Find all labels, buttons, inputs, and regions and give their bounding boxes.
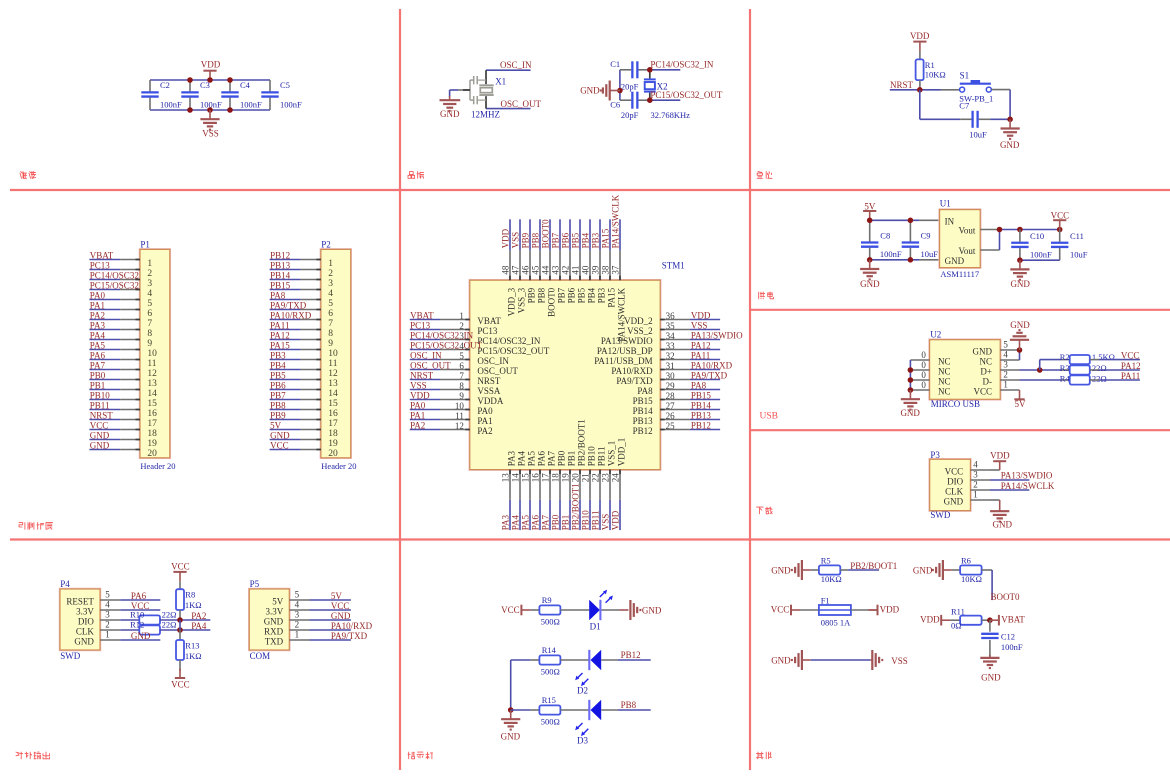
svg-text:PA2: PA2 — [90, 311, 105, 321]
junction — [917, 87, 923, 93]
svg-text:39: 39 — [591, 265, 601, 275]
ground GND — [620, 600, 662, 620]
svg-text:CLK: CLK — [945, 486, 964, 496]
svg-text:R10: R10 — [130, 610, 144, 620]
node VCC — [120, 601, 160, 611]
pin 8 of P1 — [120, 329, 152, 339]
wire — [870, 219, 920, 221]
svg-text:43: 43 — [551, 265, 561, 275]
svg-text:PA4: PA4 — [511, 515, 521, 531]
pin 5 of P2 — [300, 299, 333, 309]
svg-text:NRST: NRST — [90, 411, 114, 421]
node OSC_IN — [486, 60, 532, 70]
svg-text:NC: NC — [979, 356, 992, 366]
pin 10 of P2 — [300, 349, 338, 359]
pin 20 of P1 — [120, 449, 157, 459]
svg-text:PA7: PA7 — [90, 361, 106, 371]
node PB11 bottom — [591, 500, 601, 530]
svg-text:PB11: PB11 — [90, 401, 110, 411]
power VCC — [771, 605, 800, 616]
node VCC — [270, 441, 301, 451]
svg-text:42: 42 — [561, 266, 571, 275]
node PB2/BOOT1 bottom — [571, 483, 581, 530]
pin 9 of STM1 — [440, 391, 504, 406]
node PA11 — [270, 321, 301, 331]
svg-text:C5: C5 — [280, 80, 290, 90]
pin — [982, 569, 993, 571]
svg-text:45: 45 — [531, 265, 541, 275]
wire — [1020, 259, 1060, 261]
svg-text:PA9/TXD: PA9/TXD — [691, 371, 728, 381]
node PB8 top — [531, 219, 541, 250]
node VCC — [1099, 351, 1140, 361]
svg-text:PA11: PA11 — [270, 321, 289, 331]
svg-text:NRST: NRST — [890, 80, 914, 90]
svg-text:VCC: VCC — [1121, 351, 1140, 361]
svg-text:PC15/OSC32: PC15/OSC32 — [90, 281, 139, 291]
svg-text:GND: GND — [580, 86, 600, 96]
svg-text:GND: GND — [1010, 279, 1030, 289]
wire — [811, 659, 871, 661]
section label 对外输出 — [16, 752, 50, 759]
resistor R10 — [120, 610, 176, 625]
pin 13 of STM1 — [501, 451, 517, 500]
svg-text:PA13/SWDIO: PA13/SWDIO — [601, 336, 653, 346]
capacitor C2 — [141, 80, 182, 110]
capacitor C12 — [981, 631, 1023, 657]
pin 11 of P2 — [300, 359, 337, 369]
pin 40 of STM1 — [581, 250, 597, 303]
svg-text:PA5: PA5 — [90, 341, 106, 351]
svg-text:NRST: NRST — [410, 371, 434, 381]
pin 2 of P3 — [970, 480, 990, 491]
svg-text:4: 4 — [295, 600, 300, 610]
node VBAT — [89, 251, 120, 261]
svg-text:9: 9 — [459, 391, 464, 401]
svg-text:Vout: Vout — [959, 226, 976, 236]
pin — [990, 499, 1000, 501]
pin 12 of STM1 — [440, 421, 493, 436]
resistor R15 — [539, 695, 560, 727]
svg-text:8: 8 — [147, 329, 152, 339]
svg-text:GND: GND — [900, 408, 920, 418]
svg-text:GND: GND — [913, 565, 933, 575]
pin — [601, 709, 618, 711]
svg-text:5: 5 — [328, 299, 333, 309]
node PA0 — [89, 291, 120, 301]
pin 19 of P1 — [120, 439, 157, 449]
svg-text:MIRCO USB: MIRCO USB — [931, 399, 980, 409]
svg-text:8: 8 — [328, 329, 333, 339]
pin 16 of P1 — [120, 409, 157, 419]
node BOOT0 top — [541, 219, 551, 250]
svg-text:D2: D2 — [577, 686, 588, 696]
svg-text:27: 27 — [666, 401, 676, 411]
section divider usb/download — [750, 429, 1170, 431]
node PA2 — [410, 421, 440, 431]
svg-text:PB13: PB13 — [633, 416, 654, 426]
svg-text:PA15: PA15 — [270, 341, 290, 351]
pin 6 of STM1 — [440, 361, 518, 376]
svg-text:100nF: 100nF — [1030, 250, 1052, 260]
svg-text:R3: R3 — [1060, 363, 1070, 373]
svg-text:R5: R5 — [821, 556, 831, 566]
resistor R13 — [176, 640, 202, 661]
svg-text:BOOT0: BOOT0 — [547, 287, 557, 316]
svg-text:PB6: PB6 — [561, 232, 571, 248]
node PA7 — [89, 361, 120, 371]
svg-text:PA9/TXD: PA9/TXD — [270, 301, 307, 311]
svg-text:PB1: PB1 — [561, 515, 571, 531]
junction — [867, 218, 913, 263]
svg-text:1KΩ: 1KΩ — [185, 600, 202, 610]
capacitor C1 — [610, 59, 650, 92]
pin 19 of P2 — [300, 439, 338, 449]
svg-text:PB2/BOOT1: PB2/BOOT1 — [850, 561, 897, 571]
wire — [511, 709, 531, 711]
node PB13 — [690, 411, 720, 421]
node VCC — [310, 601, 351, 611]
node PA0 — [410, 401, 440, 411]
svg-text:PB15: PB15 — [633, 396, 654, 406]
pin 37 of STM1 — [611, 250, 627, 341]
node GND — [89, 441, 120, 451]
svg-text:22Ω: 22Ω — [1092, 374, 1107, 384]
svg-text:R15: R15 — [542, 695, 556, 705]
node PB7 top — [551, 219, 561, 250]
svg-text:C9: C9 — [921, 230, 931, 240]
node NRST — [89, 411, 120, 421]
svg-text:VCC: VCC — [771, 605, 790, 615]
svg-text:NC: NC — [938, 387, 951, 397]
svg-text:D1: D1 — [590, 621, 601, 631]
svg-text:C4: C4 — [240, 80, 251, 90]
svg-text:VCC: VCC — [331, 601, 350, 611]
svg-text:VSS: VSS — [891, 656, 908, 666]
svg-text:4: 4 — [973, 460, 978, 470]
svg-text:D3: D3 — [577, 736, 588, 746]
node PC14/OSC32 — [89, 271, 138, 281]
svg-text:PC13: PC13 — [410, 321, 431, 331]
resistor R2 — [1060, 352, 1115, 364]
svg-text:R9: R9 — [542, 595, 552, 605]
pin 3 of STM1 — [440, 331, 541, 346]
svg-text:PB6: PB6 — [270, 381, 286, 391]
pin 29 of STM1 — [637, 381, 689, 396]
svg-text:VDD: VDD — [201, 60, 221, 70]
pin 14 of STM1 — [511, 451, 527, 500]
pin 0 of U2 — [910, 360, 929, 370]
node 5V — [310, 591, 351, 601]
svg-text:PB10: PB10 — [581, 510, 591, 531]
svg-text:OSC_IN: OSC_IN — [500, 60, 532, 70]
junction — [187, 107, 233, 113]
svg-text:VBAT: VBAT — [477, 316, 501, 326]
pin 4 of P5 — [289, 600, 309, 610]
node PA12 — [690, 341, 720, 351]
node PB12 — [270, 251, 301, 261]
pin 32 of STM1 — [594, 351, 690, 366]
svg-text:PB9: PB9 — [521, 232, 531, 248]
svg-text:22Ω: 22Ω — [162, 620, 177, 630]
pin 2 of STM1 — [440, 321, 498, 336]
svg-text:5V: 5V — [270, 421, 282, 431]
node OSC_OUT — [486, 99, 542, 109]
svg-text:IN: IN — [945, 216, 955, 226]
svg-text:R2: R2 — [1060, 352, 1070, 362]
svg-text:GND: GND — [860, 279, 880, 289]
svg-text:1: 1 — [147, 259, 152, 269]
svg-text:12: 12 — [328, 369, 338, 379]
svg-text:44: 44 — [541, 265, 551, 275]
svg-text:PA10/RXD: PA10/RXD — [691, 361, 733, 371]
node PB1 — [89, 381, 120, 391]
svg-text:PA15: PA15 — [607, 287, 617, 307]
resistor R6 — [960, 556, 982, 585]
node PB3 top — [591, 219, 601, 250]
node GND — [120, 631, 160, 641]
pin 25 of STM1 — [633, 421, 690, 436]
pin — [560, 659, 589, 661]
pin — [982, 619, 990, 621]
svg-text:11: 11 — [455, 411, 464, 421]
svg-text:10uF: 10uF — [969, 129, 987, 139]
svg-text:16: 16 — [147, 409, 157, 419]
svg-text:R14: R14 — [542, 645, 557, 655]
svg-text:GND: GND — [945, 256, 965, 266]
resistor R12 — [120, 620, 176, 635]
svg-text:19: 19 — [328, 439, 338, 449]
node VCC — [89, 421, 120, 431]
svg-text:OSC_OUT: OSC_OUT — [501, 99, 542, 109]
svg-text:PB2/BOOT1: PB2/BOOT1 — [571, 483, 581, 530]
resistor R1 — [916, 59, 946, 80]
svg-text:PA8: PA8 — [691, 381, 707, 391]
svg-text:PA2: PA2 — [477, 426, 492, 436]
svg-text:VSSA: VSSA — [477, 386, 501, 396]
svg-text:4: 4 — [328, 289, 333, 299]
wire — [1019, 350, 1021, 360]
svg-text:GND: GND — [1010, 320, 1030, 330]
led D2 — [575, 650, 601, 696]
svg-text:1: 1 — [973, 490, 978, 500]
node VSS — [690, 321, 720, 331]
pin — [919, 51, 921, 60]
pin — [811, 569, 819, 571]
node PB13 — [270, 261, 301, 271]
svg-text:BOOT0: BOOT0 — [991, 592, 1020, 602]
svg-text:PC14/OSC32_IN: PC14/OSC32_IN — [477, 336, 541, 346]
node PB10 bottom — [581, 500, 591, 530]
svg-text:1: 1 — [1003, 380, 1008, 390]
svg-text:500Ω: 500Ω — [541, 667, 560, 677]
svg-text:4: 4 — [1003, 350, 1008, 360]
svg-text:17: 17 — [147, 419, 157, 429]
wire — [150, 109, 270, 111]
junction — [617, 67, 652, 103]
capacitor C11 — [1051, 230, 1088, 261]
svg-text:36: 36 — [666, 311, 676, 321]
svg-text:8: 8 — [459, 381, 464, 391]
svg-text:PC14/OSC32_IN: PC14/OSC32_IN — [410, 331, 474, 341]
node GND — [89, 431, 120, 441]
svg-text:TXD: TXD — [265, 636, 284, 646]
svg-text:PB1: PB1 — [90, 381, 106, 391]
svg-text:PB5: PB5 — [577, 287, 587, 303]
svg-text:3.3V: 3.3V — [76, 606, 94, 616]
junction — [987, 617, 993, 623]
section label 指示灯 — [408, 752, 433, 759]
svg-text:Header 20: Header 20 — [321, 461, 356, 471]
svg-text:PB0: PB0 — [557, 450, 567, 466]
junction — [1037, 367, 1043, 373]
svg-text:PA12: PA12 — [1121, 361, 1141, 371]
node PB15 — [690, 391, 720, 401]
node PB9 — [270, 411, 301, 421]
pin 11 of P1 — [120, 359, 157, 369]
node PA14/SWCLK top — [611, 194, 621, 250]
svg-text:4: 4 — [105, 600, 110, 610]
svg-text:PB7: PB7 — [557, 287, 567, 303]
svg-text:VDD: VDD — [920, 615, 940, 625]
svg-text:2: 2 — [147, 269, 152, 279]
svg-text:PC15/OSC32_OUT: PC15/OSC32_OUT — [410, 341, 483, 351]
section label 晶振 — [408, 172, 424, 179]
pin 18 of P1 — [120, 429, 157, 439]
section divider vertical 2 — [749, 9, 751, 770]
svg-text:GND: GND — [131, 631, 151, 641]
pin 9 of P2 — [300, 339, 333, 349]
ground GND — [900, 390, 920, 418]
pin — [990, 469, 1000, 471]
svg-text:13: 13 — [501, 473, 511, 483]
svg-text:R8: R8 — [185, 590, 195, 600]
svg-text:10KΩ: 10KΩ — [821, 574, 842, 584]
node PB10 — [89, 391, 120, 401]
pin 0 of U2 — [910, 370, 929, 380]
junction — [508, 707, 514, 713]
wire — [510, 660, 512, 710]
connector P5 — [249, 579, 290, 661]
power VCC — [1051, 210, 1070, 229]
ground GND — [980, 655, 1001, 682]
pin 4 of P2 — [300, 289, 333, 299]
pin 3 of P3 — [970, 470, 990, 481]
svg-text:GND: GND — [74, 636, 94, 646]
svg-text:15: 15 — [147, 399, 157, 409]
pin 16 of P2 — [300, 409, 338, 419]
pin 23 of STM1 — [601, 441, 617, 500]
svg-text:PA4: PA4 — [90, 331, 106, 341]
svg-text:PA11: PA11 — [691, 351, 710, 361]
svg-text:1: 1 — [105, 630, 110, 640]
node VDD — [690, 311, 720, 321]
ground GND — [771, 560, 811, 580]
node PA3 bottom — [501, 500, 511, 530]
pin 0 of U2 — [910, 380, 929, 390]
ground GND — [440, 96, 461, 119]
pin 15 of P2 — [300, 399, 338, 409]
svg-text:VSS: VSS — [601, 514, 611, 531]
junction — [1017, 257, 1023, 263]
svg-text:PA4: PA4 — [191, 621, 207, 631]
svg-text:PB9: PB9 — [527, 287, 537, 303]
svg-text:23: 23 — [601, 473, 611, 483]
pin — [851, 609, 878, 611]
crystal X2 — [644, 70, 690, 120]
section label 下载 — [757, 507, 773, 514]
svg-text:PA7: PA7 — [547, 451, 557, 467]
svg-text:NRST: NRST — [477, 376, 501, 386]
svg-text:GND: GND — [944, 496, 964, 506]
pin 35 of STM1 — [627, 321, 690, 336]
svg-text:28: 28 — [666, 391, 676, 401]
svg-text:PB4: PB4 — [581, 232, 591, 248]
connector P3 — [929, 450, 971, 520]
wire — [990, 118, 1010, 120]
svg-text:C7: C7 — [959, 100, 969, 110]
svg-text:U2: U2 — [930, 329, 941, 339]
svg-text:10uF: 10uF — [921, 249, 939, 259]
pin — [179, 581, 181, 589]
svg-text:6: 6 — [147, 309, 152, 319]
svg-text:PA0: PA0 — [90, 291, 106, 301]
node 5V — [270, 421, 301, 431]
svg-text:15: 15 — [521, 473, 531, 483]
svg-text:PA5: PA5 — [521, 515, 531, 531]
pin 18 of P2 — [300, 429, 338, 439]
pin 28 of STM1 — [633, 391, 690, 406]
svg-text:PB3: PB3 — [270, 351, 286, 361]
svg-text:18: 18 — [551, 473, 561, 483]
node PA13/SWDIO — [990, 471, 1053, 481]
svg-text:3: 3 — [105, 610, 110, 620]
power VCC — [501, 605, 530, 616]
junction — [1007, 117, 1013, 123]
svg-text:33: 33 — [666, 341, 676, 351]
svg-text:PA0: PA0 — [477, 406, 493, 416]
svg-text:PC14/OSC32_IN: PC14/OSC32_IN — [650, 59, 714, 69]
ground GND — [580, 81, 620, 101]
svg-text:22: 22 — [591, 473, 601, 482]
svg-text:PB11: PB11 — [591, 511, 601, 531]
svg-text:22Ω: 22Ω — [162, 610, 177, 620]
node PC13 — [89, 261, 120, 271]
svg-text:GND: GND — [771, 565, 791, 575]
svg-text:GND: GND — [440, 109, 460, 119]
node PB14 — [690, 401, 720, 411]
pin 20 of STM1 — [571, 419, 587, 500]
node PB5 top — [571, 219, 581, 250]
svg-text:37: 37 — [611, 265, 621, 275]
svg-text:7: 7 — [328, 319, 333, 329]
svg-text:PB6: PB6 — [567, 287, 577, 303]
svg-text:PA10/RXD: PA10/RXD — [270, 311, 312, 321]
ground GND — [1010, 320, 1030, 350]
pin — [980, 249, 999, 251]
svg-text:PC15/OSC32_OUT: PC15/OSC32_OUT — [650, 90, 723, 100]
pin 0 of U2 — [910, 350, 929, 360]
pin 3 of P5 — [289, 610, 309, 620]
svg-text:USB: USB — [760, 412, 778, 422]
pin 42 of STM1 — [561, 250, 577, 303]
svg-text:PA8: PA8 — [270, 291, 286, 301]
svg-text:C12: C12 — [1001, 631, 1015, 641]
section label 滤波 — [20, 172, 36, 179]
svg-text:PA12: PA12 — [270, 331, 290, 341]
node PA6 — [120, 591, 160, 601]
svg-text:GND: GND — [501, 732, 521, 742]
